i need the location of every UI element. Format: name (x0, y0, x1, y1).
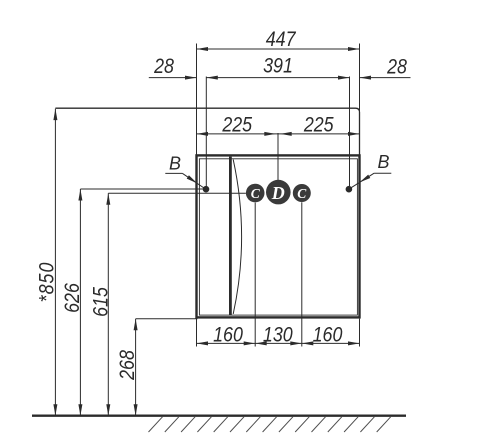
svg-text:28: 28 (386, 55, 407, 79)
extension line left inner down to dot B (205, 77, 207, 190)
reference line 615 (108, 192, 246, 194)
svg-text:225: 225 (221, 113, 252, 137)
cabinet outer box (197, 155, 360, 317)
extension line bottom left (196, 319, 198, 347)
svg-text:B: B (377, 152, 389, 172)
extension line right outer (359, 44, 361, 113)
svg-text:626: 626 (61, 283, 85, 313)
hole circle C left (246, 184, 265, 203)
svg-text:28: 28 (153, 55, 174, 79)
mounting dot B right (346, 186, 353, 193)
reference line 268 (136, 318, 198, 320)
svg-text:391: 391 (263, 54, 293, 78)
svg-text:447: 447 (266, 28, 297, 52)
svg-text:225: 225 (303, 113, 334, 137)
reference line 626 (80, 188, 203, 190)
dimension 28 left leader (149, 77, 197, 79)
dimension 615 line (107, 193, 109, 415)
svg-text:B: B (169, 154, 181, 174)
svg-text:130: 130 (263, 323, 293, 347)
door edge thick line (229, 157, 232, 316)
svg-text:268: 268 (116, 350, 140, 381)
extension line from C right down (301, 202, 303, 346)
label B left leader (165, 172, 182, 174)
extension line bottom right (359, 319, 361, 347)
svg-text:160: 160 (213, 323, 243, 347)
hole circle C right (293, 184, 311, 202)
hole circle D center (266, 180, 291, 205)
door swing arc (233, 160, 241, 315)
washbasin top profile (55, 108, 359, 155)
mounting dot B left (203, 186, 210, 193)
ground hatching (149, 417, 391, 432)
dimension 391 line (206, 77, 349, 79)
extension line left outer (196, 44, 198, 156)
dimension 160-130-160 line (197, 342, 360, 344)
svg-text:*850: *850 (35, 262, 59, 303)
svg-text:615: 615 (89, 287, 113, 317)
svg-text:C: C (251, 186, 261, 201)
extension line from C left down (254, 203, 256, 347)
svg-text:C: C (297, 186, 307, 201)
extension line right inner down to dot B (349, 77, 351, 190)
dimension 28 right leader (360, 77, 411, 79)
svg-text:D: D (271, 183, 285, 203)
dimension *850 line (54, 109, 56, 416)
extension line center to D (277, 133, 279, 181)
dimension 626 line (79, 189, 81, 416)
cabinet inner box (199, 159, 357, 315)
label B right leader (374, 172, 391, 174)
ground line (32, 415, 406, 417)
svg-text:160: 160 (313, 323, 343, 347)
dimension 447 line (197, 48, 360, 50)
dimension 268 line (135, 319, 137, 416)
dimension 225 line (197, 133, 360, 135)
